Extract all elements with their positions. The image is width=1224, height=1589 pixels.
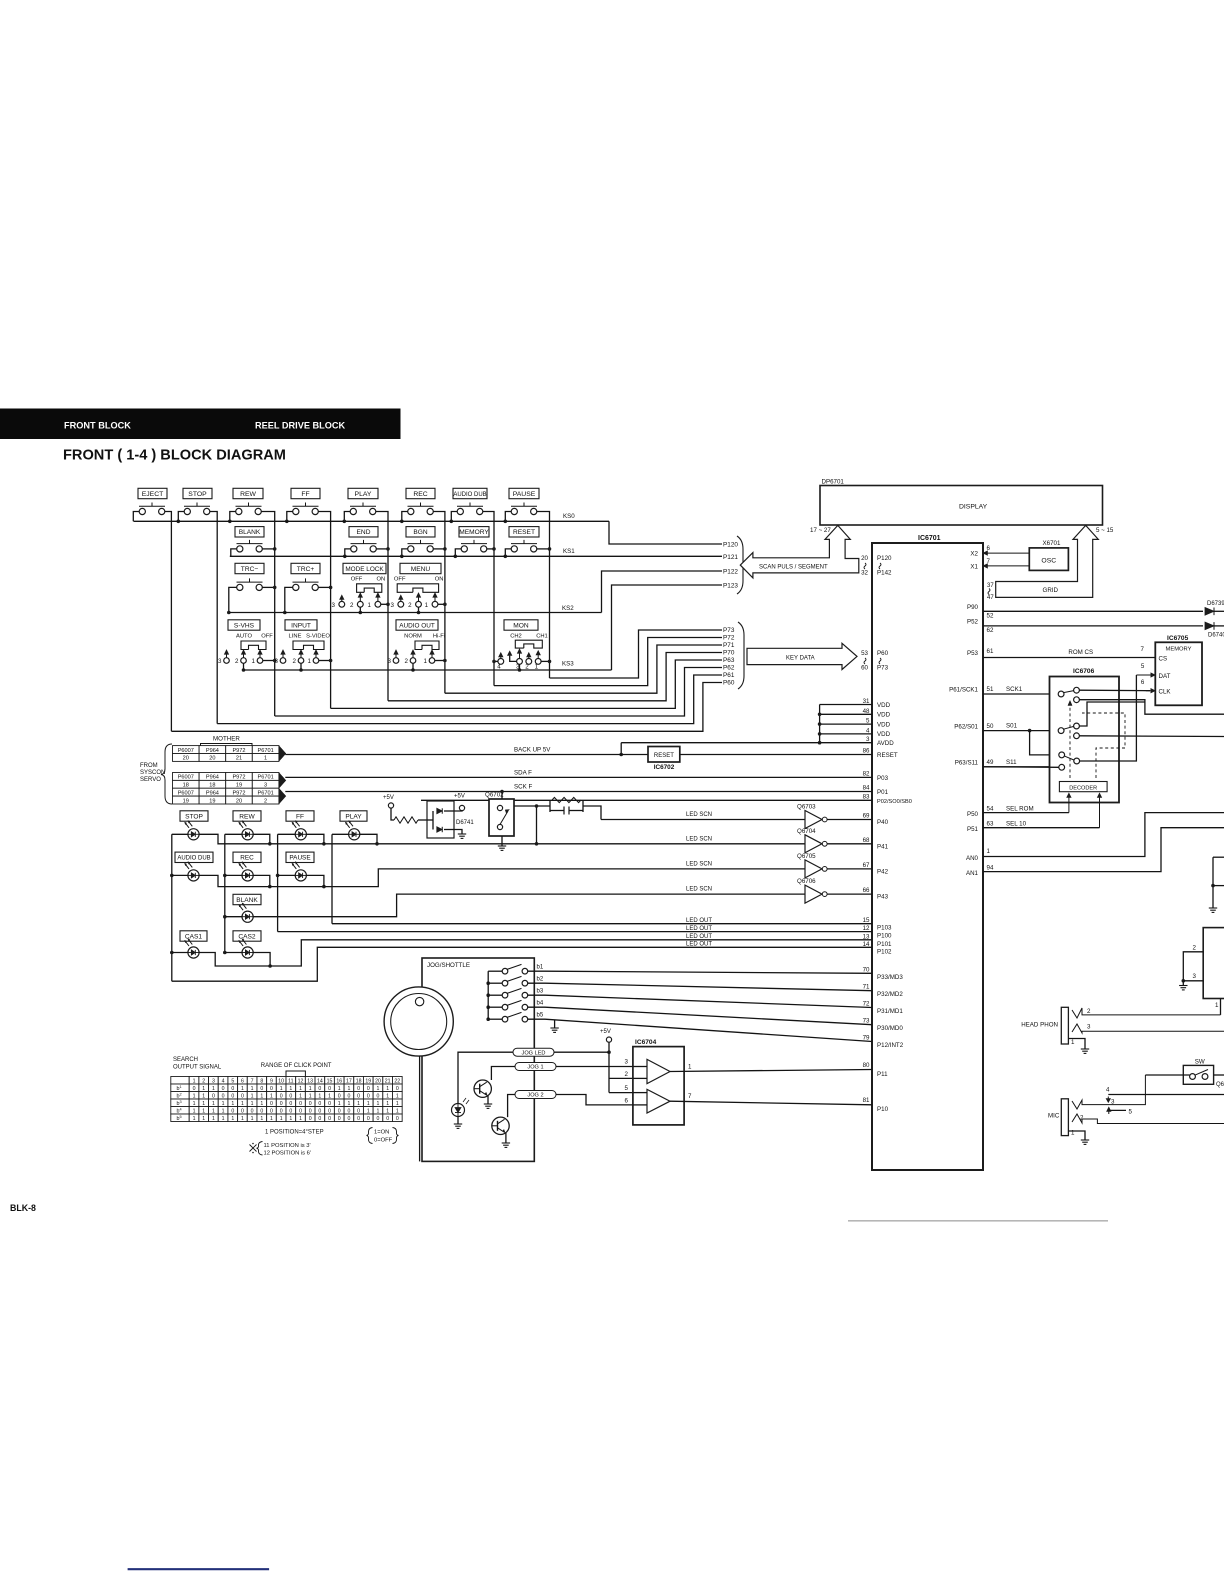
svg-text:1: 1	[202, 1101, 205, 1107]
svg-text:47: 47	[987, 595, 994, 601]
svg-text:2: 2	[350, 602, 354, 609]
svg-text:LED OUT: LED OUT	[686, 934, 712, 940]
svg-text:INPUT: INPUT	[291, 622, 311, 629]
svg-text:13: 13	[307, 1078, 313, 1084]
svg-text:P964: P964	[206, 775, 219, 781]
svg-text:P120: P120	[877, 555, 892, 562]
svg-text:0: 0	[299, 1101, 302, 1107]
svg-text:P142: P142	[877, 570, 892, 577]
svg-text:6: 6	[241, 1078, 244, 1084]
svg-text:b5: b5	[537, 1013, 544, 1019]
svg-text:86: 86	[863, 748, 870, 755]
svg-text:3: 3	[625, 1059, 629, 1066]
svg-text:0: 0	[377, 1093, 380, 1099]
svg-text:1: 1	[212, 1086, 215, 1092]
svg-text:1: 1	[309, 1093, 312, 1099]
svg-text:P6007: P6007	[178, 790, 194, 796]
svg-text:P123: P123	[723, 583, 738, 590]
svg-text:REC: REC	[240, 855, 254, 862]
svg-text:JOG 2: JOG 2	[527, 1093, 543, 1099]
svg-text:0: 0	[377, 1116, 380, 1122]
svg-text:SEARCH: SEARCH	[173, 1057, 198, 1063]
svg-text:1: 1	[535, 663, 539, 670]
svg-text:P63: P63	[723, 657, 735, 664]
svg-text:P964: P964	[206, 790, 219, 796]
svg-text:OSC: OSC	[1041, 558, 1056, 565]
svg-text:P11: P11	[877, 1071, 888, 1078]
svg-text:21: 21	[236, 756, 242, 762]
svg-text:0: 0	[347, 1108, 350, 1114]
svg-text:LED SCN: LED SCN	[686, 861, 712, 867]
svg-text:3: 3	[1111, 1099, 1115, 1106]
svg-text:0: 0	[318, 1108, 321, 1114]
svg-text:68: 68	[863, 837, 870, 844]
svg-text:P73: P73	[877, 665, 889, 672]
svg-text:1: 1	[299, 1086, 302, 1092]
svg-text:63: 63	[987, 821, 994, 828]
svg-text:STOP: STOP	[185, 813, 203, 820]
svg-text:1: 1	[308, 658, 312, 665]
svg-text:6: 6	[1141, 679, 1145, 686]
svg-text:0: 0	[309, 1108, 312, 1114]
svg-text:CLK: CLK	[1159, 689, 1172, 696]
svg-text:REEL DRIVE BLOCK: REEL DRIVE BLOCK	[255, 421, 346, 431]
svg-text:1: 1	[1071, 1130, 1075, 1137]
svg-text:BLANK: BLANK	[236, 897, 258, 904]
svg-text:RANGE OF CLICK POINT: RANGE OF CLICK POINT	[261, 1063, 332, 1069]
svg-text:12: 12	[863, 925, 870, 932]
svg-text:KS1: KS1	[563, 548, 575, 555]
svg-text:0: 0	[280, 1093, 283, 1099]
svg-text:P61/SCK1: P61/SCK1	[949, 687, 978, 694]
svg-text:20: 20	[236, 798, 242, 804]
svg-text:3: 3	[264, 783, 267, 789]
svg-text:1: 1	[212, 1116, 215, 1122]
svg-text:1: 1	[396, 1093, 399, 1099]
svg-text:17: 17	[346, 1078, 352, 1084]
svg-text:20: 20	[183, 756, 189, 762]
svg-text:1: 1	[328, 1093, 331, 1099]
svg-text:3: 3	[218, 658, 222, 665]
svg-text:AUTO: AUTO	[236, 634, 252, 640]
svg-text:1: 1	[396, 1108, 399, 1114]
svg-text:1: 1	[252, 658, 256, 665]
svg-text:1: 1	[193, 1116, 196, 1122]
svg-text:1: 1	[396, 1101, 399, 1107]
svg-text:STOP: STOP	[188, 491, 207, 498]
svg-text:1: 1	[264, 756, 267, 762]
svg-text:0: 0	[357, 1086, 360, 1092]
svg-text:Hi-Fi: Hi-Fi	[433, 634, 445, 640]
svg-text:3: 3	[390, 602, 394, 609]
svg-text:1: 1	[260, 1116, 263, 1122]
svg-text:11 POSITION is 3': 11 POSITION is 3'	[264, 1143, 311, 1149]
svg-text:P972: P972	[232, 775, 245, 781]
svg-text:1: 1	[270, 1093, 273, 1099]
svg-text:21: 21	[385, 1078, 391, 1084]
svg-text:79: 79	[863, 1035, 870, 1042]
svg-text:7: 7	[688, 1093, 692, 1100]
svg-text:P73: P73	[723, 627, 735, 634]
svg-text:84: 84	[863, 785, 870, 792]
svg-text:16: 16	[336, 1078, 342, 1084]
svg-text:P42: P42	[877, 868, 889, 875]
svg-text:0: 0	[357, 1108, 360, 1114]
svg-text:LED SCN: LED SCN	[686, 836, 712, 842]
svg-text:AN1: AN1	[966, 870, 979, 877]
svg-text:PAUSE: PAUSE	[289, 855, 310, 862]
svg-text:80: 80	[863, 1062, 870, 1069]
svg-text:50: 50	[987, 723, 994, 730]
svg-text:P63/S11: P63/S11	[955, 760, 979, 767]
svg-text:12: 12	[298, 1078, 304, 1084]
svg-text:13: 13	[863, 933, 870, 940]
svg-text:0: 0	[260, 1086, 263, 1092]
svg-text:MEMORY: MEMORY	[459, 529, 489, 536]
svg-text:OFF: OFF	[351, 577, 363, 583]
svg-text:KS3: KS3	[562, 661, 574, 668]
svg-text:0: 0	[222, 1093, 225, 1099]
svg-text:0: 0	[270, 1086, 273, 1092]
svg-text:P02/SO0/SB0: P02/SO0/SB0	[877, 799, 912, 805]
svg-text:P60: P60	[723, 680, 735, 687]
svg-text:2: 2	[405, 658, 409, 665]
svg-text:0: 0	[318, 1086, 321, 1092]
svg-text:P10: P10	[877, 1106, 889, 1113]
svg-text:ON: ON	[377, 577, 386, 583]
svg-text:0: 0	[231, 1108, 234, 1114]
svg-text:5: 5	[1129, 1109, 1133, 1116]
svg-text:P40: P40	[877, 819, 889, 826]
svg-text:1: 1	[251, 1093, 254, 1099]
svg-text:S11: S11	[1006, 759, 1017, 766]
svg-text:7: 7	[251, 1078, 254, 1084]
svg-text:P50: P50	[967, 811, 979, 818]
svg-text:REC: REC	[413, 491, 427, 498]
svg-text:0: 0	[347, 1093, 350, 1099]
svg-text:1: 1	[280, 1116, 283, 1122]
svg-text:DISPLAY: DISPLAY	[959, 504, 988, 511]
svg-text:D6740: D6740	[1208, 633, 1224, 639]
svg-text:P6007: P6007	[178, 775, 194, 781]
svg-text:3: 3	[331, 602, 335, 609]
svg-text:JOG LED: JOG LED	[522, 1050, 546, 1056]
svg-text:P52: P52	[967, 619, 979, 626]
svg-text:1: 1	[425, 602, 429, 609]
svg-text:2: 2	[1087, 1008, 1091, 1015]
svg-text:5 ~ 15: 5 ~ 15	[1096, 527, 1114, 534]
svg-text:P03: P03	[877, 775, 889, 782]
svg-text:b2: b2	[537, 977, 544, 983]
svg-text:51: 51	[987, 686, 994, 693]
svg-text:0: 0	[280, 1108, 283, 1114]
svg-text:SCK F: SCK F	[514, 784, 532, 791]
svg-text:SW: SW	[1195, 1059, 1205, 1066]
svg-text:12 POSITION is 6': 12 POSITION is 6'	[264, 1151, 312, 1157]
svg-text:CH1: CH1	[536, 634, 548, 640]
svg-text:BACK UP 5V: BACK UP 5V	[514, 747, 551, 754]
svg-text:Q6706: Q6706	[797, 878, 816, 885]
svg-text:4: 4	[222, 1078, 225, 1084]
svg-text:MODE LOCK: MODE LOCK	[345, 566, 384, 573]
svg-text:1: 1	[251, 1101, 254, 1107]
svg-text:P6701: P6701	[258, 775, 274, 781]
svg-text:0: 0	[289, 1108, 292, 1114]
svg-text:1: 1	[357, 1101, 360, 1107]
svg-text:19: 19	[236, 783, 242, 789]
svg-text:DAT: DAT	[1159, 673, 1171, 680]
svg-text:JOG/SHOTTLE: JOG/SHOTTLE	[427, 962, 470, 969]
svg-text:1: 1	[202, 1086, 205, 1092]
svg-text:P102: P102	[877, 948, 892, 955]
svg-text:1: 1	[241, 1086, 244, 1092]
svg-text:P121: P121	[723, 554, 738, 561]
svg-text:3: 3	[275, 658, 279, 665]
svg-text:14: 14	[863, 941, 870, 948]
svg-text:0: 0	[251, 1108, 254, 1114]
svg-text:67: 67	[863, 862, 870, 869]
svg-text:0: 0	[328, 1108, 331, 1114]
svg-text:1: 1	[309, 1086, 312, 1092]
svg-text:1: 1	[289, 1116, 292, 1122]
svg-text:83: 83	[863, 793, 870, 800]
svg-text:P32/MD2: P32/MD2	[877, 991, 903, 998]
svg-text:1=ON: 1=ON	[374, 1130, 389, 1136]
svg-text:69: 69	[863, 813, 870, 820]
svg-text:18: 18	[183, 783, 189, 789]
svg-text:PLAY: PLAY	[355, 491, 372, 498]
svg-text:FF: FF	[296, 813, 304, 820]
svg-text:0: 0	[260, 1108, 263, 1114]
svg-text:FROM: FROM	[140, 763, 158, 769]
svg-text:TRC−: TRC−	[241, 566, 259, 573]
svg-text:X2: X2	[970, 551, 978, 558]
svg-text:P100: P100	[877, 933, 892, 940]
svg-text:1: 1	[193, 1101, 196, 1107]
svg-text:1: 1	[367, 1101, 370, 1107]
svg-text:82: 82	[863, 770, 870, 777]
svg-text:LED OUT: LED OUT	[686, 926, 712, 932]
svg-text:+5V: +5V	[383, 795, 394, 801]
svg-text:52: 52	[987, 613, 994, 620]
svg-text:49: 49	[987, 759, 994, 766]
svg-text:P41: P41	[877, 843, 889, 850]
svg-text:2: 2	[202, 1078, 205, 1084]
svg-text:P01: P01	[877, 789, 889, 796]
svg-text:X1: X1	[970, 563, 978, 570]
svg-text:PAUSE: PAUSE	[513, 491, 536, 498]
svg-text:RESET: RESET	[654, 753, 674, 759]
svg-text:0: 0	[338, 1116, 341, 1122]
svg-text:1: 1	[241, 1101, 244, 1107]
svg-text:3: 3	[1193, 973, 1197, 980]
svg-text:KS0: KS0	[563, 513, 575, 520]
svg-text:DP6701: DP6701	[822, 479, 845, 486]
svg-text:P51: P51	[967, 826, 979, 833]
svg-text:FRONT ( 1-4 ) BLOCK DIAGRAM: FRONT ( 1-4 ) BLOCK DIAGRAM	[63, 448, 286, 464]
svg-text:1: 1	[386, 1108, 389, 1114]
svg-text:20: 20	[375, 1078, 381, 1084]
svg-text:D6739: D6739	[1207, 601, 1224, 607]
svg-text:RESET: RESET	[513, 529, 535, 536]
svg-text:1: 1	[251, 1086, 254, 1092]
svg-text:P964: P964	[206, 748, 219, 754]
svg-text:1: 1	[386, 1093, 389, 1099]
svg-text:3: 3	[1087, 1024, 1091, 1031]
svg-text:1: 1	[212, 1101, 215, 1107]
svg-text:IC6704: IC6704	[635, 1039, 657, 1046]
svg-text:0: 0	[241, 1093, 244, 1099]
svg-text:62: 62	[987, 627, 994, 634]
svg-text:0: 0	[328, 1101, 331, 1107]
svg-text:P6007: P6007	[178, 748, 194, 754]
svg-text:0: 0	[289, 1101, 292, 1107]
svg-text:0: 0	[367, 1086, 370, 1092]
svg-text:15: 15	[863, 917, 870, 924]
svg-text:1: 1	[318, 1093, 321, 1099]
svg-text:MEMORY: MEMORY	[1166, 647, 1192, 653]
svg-text:0: 0	[338, 1108, 341, 1114]
svg-text:0: 0	[396, 1116, 399, 1122]
svg-text:FF: FF	[301, 491, 309, 498]
svg-text:P6701: P6701	[258, 790, 274, 796]
svg-text:1: 1	[367, 1108, 370, 1114]
svg-text:1: 1	[386, 1086, 389, 1092]
svg-text:MENU: MENU	[411, 566, 431, 573]
svg-text:FRONT BLOCK: FRONT BLOCK	[64, 421, 131, 431]
svg-text:70: 70	[863, 966, 870, 973]
svg-text:20: 20	[209, 756, 215, 762]
svg-text:REW: REW	[239, 813, 255, 820]
svg-text:VDD: VDD	[877, 731, 891, 738]
svg-text:1: 1	[193, 1093, 196, 1099]
svg-text:SEL 10: SEL 10	[1006, 821, 1027, 828]
svg-text:OFF: OFF	[394, 577, 406, 583]
svg-text:5: 5	[1141, 663, 1145, 670]
svg-text:0: 0	[280, 1101, 283, 1107]
svg-text:1: 1	[231, 1101, 234, 1107]
svg-text:11: 11	[288, 1078, 293, 1084]
svg-text:3: 3	[388, 658, 392, 665]
svg-text:1: 1	[202, 1108, 205, 1114]
svg-text:P103: P103	[877, 925, 892, 932]
svg-text:1: 1	[231, 1116, 234, 1122]
svg-text:32: 32	[861, 570, 868, 577]
svg-text:Q6705: Q6705	[797, 853, 816, 860]
svg-text:1: 1	[347, 1086, 350, 1092]
svg-text:IC6701: IC6701	[918, 535, 941, 542]
svg-text:0: 0	[270, 1108, 273, 1114]
svg-text:P70: P70	[723, 650, 735, 657]
svg-text:0: 0	[386, 1116, 389, 1122]
svg-text:P31/MD1: P31/MD1	[877, 1008, 903, 1015]
svg-text:0: 0	[396, 1086, 399, 1092]
svg-text:0: 0	[212, 1093, 215, 1099]
svg-text:1: 1	[289, 1086, 292, 1092]
svg-text:LED OUT: LED OUT	[686, 918, 712, 924]
svg-text:1 POSITION=4°STEP: 1 POSITION=4°STEP	[265, 1130, 324, 1136]
svg-text:PLAY: PLAY	[345, 813, 362, 820]
svg-text:2: 2	[293, 658, 297, 665]
svg-text:72: 72	[863, 1001, 870, 1008]
svg-text:EJECT: EJECT	[142, 491, 164, 498]
svg-text:0: 0	[328, 1116, 331, 1122]
svg-text:1: 1	[299, 1093, 302, 1099]
svg-text:54: 54	[987, 806, 994, 813]
svg-text:4: 4	[497, 663, 501, 670]
svg-text:18: 18	[356, 1078, 362, 1084]
svg-text:S-VHS: S-VHS	[234, 622, 255, 629]
svg-text:4: 4	[1106, 1087, 1110, 1094]
svg-text:P60: P60	[877, 650, 889, 657]
svg-text:+5V: +5V	[454, 794, 465, 800]
svg-text:1: 1	[987, 848, 991, 855]
svg-text:14: 14	[317, 1078, 323, 1084]
svg-text:0: 0	[309, 1101, 312, 1107]
svg-text:SCK1: SCK1	[1006, 686, 1023, 693]
svg-text:NORM: NORM	[404, 634, 422, 640]
svg-text:S01: S01	[1006, 723, 1018, 730]
svg-text:P122: P122	[723, 569, 738, 576]
svg-text:LINE: LINE	[289, 634, 302, 640]
svg-text:KEY DATA: KEY DATA	[786, 656, 815, 662]
svg-text:b1: b1	[537, 965, 544, 971]
svg-text:CAS1: CAS1	[185, 933, 203, 940]
svg-text:0: 0	[309, 1116, 312, 1122]
svg-text:P90: P90	[967, 604, 979, 611]
svg-text:AN0: AN0	[966, 855, 979, 862]
svg-text:Q6703: Q6703	[797, 804, 816, 811]
svg-text:1: 1	[222, 1101, 225, 1107]
svg-text:0: 0	[299, 1108, 302, 1114]
svg-text:IC6705: IC6705	[1167, 635, 1189, 642]
svg-text:AUDIO DUB: AUDIO DUB	[177, 856, 210, 862]
svg-text:P61: P61	[723, 672, 735, 679]
svg-text:P12/INT2: P12/INT2	[877, 1042, 904, 1049]
svg-text:VDD: VDD	[877, 702, 891, 709]
svg-text:BLANK: BLANK	[239, 529, 261, 536]
svg-text:6: 6	[625, 1098, 629, 1105]
svg-text:19: 19	[209, 798, 215, 804]
svg-text:0: 0	[231, 1086, 234, 1092]
svg-text:GRID: GRID	[1043, 587, 1059, 594]
svg-text:8: 8	[260, 1078, 263, 1084]
svg-text:MOTHER: MOTHER	[213, 736, 240, 743]
svg-text:MON: MON	[513, 622, 529, 629]
svg-text:END: END	[357, 529, 371, 536]
svg-text:TRC+: TRC+	[297, 566, 315, 573]
svg-text:0: 0	[338, 1093, 341, 1099]
svg-text:1: 1	[299, 1116, 302, 1122]
svg-text:1: 1	[1215, 1002, 1219, 1009]
svg-text:1: 1	[222, 1116, 225, 1122]
svg-text:S-VIDEO: S-VIDEO	[306, 634, 330, 640]
svg-text:1: 1	[193, 1078, 196, 1084]
svg-text:0: 0	[367, 1093, 370, 1099]
svg-text:VDD: VDD	[877, 721, 891, 728]
svg-text:LED SCN: LED SCN	[686, 887, 712, 893]
svg-text:VDD: VDD	[877, 712, 891, 719]
svg-text:1: 1	[251, 1116, 254, 1122]
svg-text:ROM CS: ROM CS	[1068, 649, 1093, 656]
svg-text:ON: ON	[435, 577, 444, 583]
svg-text:94: 94	[987, 865, 994, 872]
svg-text:P71: P71	[723, 642, 735, 649]
svg-text:1: 1	[202, 1116, 205, 1122]
svg-text:15: 15	[327, 1078, 333, 1084]
svg-text:X6701: X6701	[1043, 540, 1061, 547]
svg-text:IC6702: IC6702	[654, 764, 675, 771]
